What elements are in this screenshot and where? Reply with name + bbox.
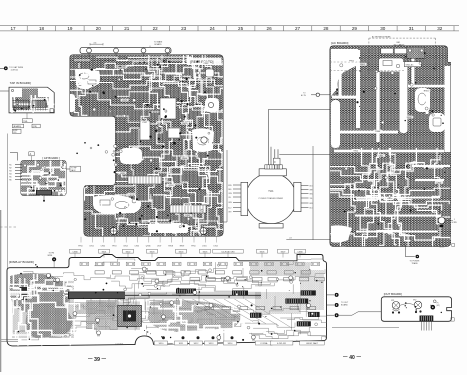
AC clear pocket left-mid <box>331 100 340 148</box>
edge connector comb ticked part <box>125 294 261 296</box>
comb connector on out board <box>420 316 434 322</box>
svg-text:TRANS: TRANS <box>412 262 419 265</box>
T901 right tab <box>294 182 301 211</box>
connector ladder <box>250 313 261 318</box>
svg-text:-551: -551 <box>13 132 16 134</box>
label box left <box>12 124 23 128</box>
connector ladder <box>176 289 196 294</box>
part label IC90 <box>142 220 150 223</box>
switch box <box>404 62 421 67</box>
wire W2 to AC board <box>269 108 341 110</box>
part label Q955 <box>118 172 126 175</box>
svg-text:R958: R958 <box>168 246 173 248</box>
strip dimension label <box>90 43 103 45</box>
hole in pocket 3 <box>201 137 207 143</box>
bottom label S314 <box>223 341 236 345</box>
svg-text:[OUT BOARD]: [OUT BOARD] <box>384 292 402 296</box>
wires below out board <box>422 321 432 330</box>
part label D951 <box>184 214 192 217</box>
screw hole with cross <box>200 228 207 235</box>
small pads out board <box>416 309 417 310</box>
clear pocket 4 <box>93 195 141 214</box>
label box above hp board <box>29 152 34 156</box>
top label S303 <box>147 249 158 253</box>
board outline: tape-in board <box>9 87 54 113</box>
bottom label S310 <box>154 341 167 345</box>
wire from rear board right edge down <box>224 150 228 222</box>
hole <box>11 89 13 91</box>
bottom label S311 <box>174 341 187 345</box>
svg-text:17: 17 <box>10 26 16 31</box>
IC951 outline <box>160 98 176 119</box>
VR952 middle <box>414 301 422 309</box>
wires exiting display board left <box>0 340 18 342</box>
svg-text:39: 39 <box>94 357 100 363</box>
wire below AC board to symbol <box>405 246 415 256</box>
IC201 block <box>118 305 142 326</box>
svg-text:[ AP BOARD ]: [ AP BOARD ] <box>43 156 61 160</box>
clear pocket 7 <box>120 148 142 164</box>
connector ladder <box>232 291 248 296</box>
AC white separator rows <box>355 198 441 232</box>
scan edge artifact left <box>0 210 1 372</box>
connector row 2 outline <box>170 205 206 213</box>
copper texture hp board <box>20 159 81 206</box>
svg-text:24: 24 <box>210 26 216 31</box>
clear pocket 6 <box>148 224 188 233</box>
svg-text:C954: C954 <box>123 246 128 248</box>
label box CN903 <box>22 119 32 123</box>
svg-text:C955: C955 <box>135 246 140 248</box>
board outline: out board <box>381 297 451 322</box>
dark pad cluster bottom <box>169 220 171 222</box>
display board thin traces <box>8 259 338 351</box>
AC board hole <box>438 217 445 224</box>
wire hp board right <box>66 168 70 170</box>
IC952 outline <box>140 121 150 140</box>
svg-text:TP50: TP50 <box>78 246 83 248</box>
svg-text:(AC CABLE): (AC CABLE) <box>394 43 405 46</box>
corner mark out board <box>451 318 454 321</box>
svg-text:LT420A: LT420A <box>260 342 268 345</box>
AC clear pocket mid-right2 <box>429 113 445 132</box>
wire below hp board <box>43 196 45 201</box>
part label C957 <box>141 121 149 124</box>
strip hole <box>165 48 170 53</box>
AC part labels <box>377 154 385 157</box>
AC white band separations horizontal <box>332 96 357 99</box>
fuse box F901 above transformer <box>273 158 280 165</box>
second component row <box>95 271 311 274</box>
C960 outline <box>168 128 180 138</box>
svg-text:LED02 DA07: LED02 DA07 <box>306 342 319 345</box>
node: to flat wire arrow <box>0 67 4 69</box>
wire between VRs <box>400 304 414 306</box>
svg-text:25: 25 <box>238 26 244 31</box>
svg-text:[DISPLAY BOARD]: [DISPLAY BOARD] <box>9 260 34 264</box>
T901 top tab <box>259 169 286 176</box>
dark connector hp board bottom <box>36 190 52 195</box>
svg-text:27: 27 <box>295 26 301 31</box>
svg-text:L907: L907 <box>157 246 161 248</box>
screw hole with cross <box>110 228 117 235</box>
copper texture rear board <box>61 55 241 249</box>
svg-text:POWER TRANSFORMER: POWER TRANSFORMER <box>259 197 284 200</box>
wire into tape-in board <box>0 90 9 92</box>
AC clear pocket top-left <box>331 49 360 96</box>
corner mark <box>452 244 455 247</box>
small outline rows right half <box>190 278 324 310</box>
svg-text:BOARD: BOARD <box>154 43 162 46</box>
wire from dot3 to out board <box>339 312 381 315</box>
svg-text:L901: L901 <box>202 246 206 248</box>
svg-text:(SP): (SP) <box>437 305 441 307</box>
svg-text:23: 23 <box>181 26 187 31</box>
T901 left pins <box>233 185 241 212</box>
part label Q952 <box>167 184 175 187</box>
connector ladder <box>301 290 316 295</box>
svg-text:[REAR BOARD]: [REAR BOARD] <box>191 60 214 64</box>
svg-text:SCRW: SCRW <box>452 222 458 224</box>
dark pad cluster top <box>139 62 140 63</box>
copper texture tape-in board <box>10 89 66 117</box>
patch between comb and IC <box>86 300 118 330</box>
fold mark dashes <box>0 226 16 228</box>
part label R953 <box>183 203 191 206</box>
svg-text:21: 21 <box>124 26 130 31</box>
dashed leaders into AC board <box>330 62 404 71</box>
top label S307 <box>278 249 289 253</box>
T901 right pins <box>301 186 309 208</box>
board label: REAR BOARD <box>188 58 222 66</box>
long vertical wire to display board <box>286 146 330 240</box>
svg-text:(CN902): (CN902) <box>11 70 19 72</box>
svg-text:R4: R4 <box>9 173 11 175</box>
white rounded square mark <box>206 69 215 77</box>
bottom label S313 <box>204 341 217 345</box>
connector ladder <box>297 321 311 326</box>
svg-text:20: 20 <box>96 26 102 31</box>
part label L951 <box>184 120 192 123</box>
svg-text:R959: R959 <box>180 246 185 248</box>
top label CN30 <box>295 249 306 253</box>
svg-text:4-202-551: 4-202-551 <box>277 343 287 345</box>
part label C962 <box>202 62 210 65</box>
board outline: rear board <box>70 55 223 236</box>
bottom label S312 <box>189 341 202 345</box>
connector row outline <box>128 176 162 184</box>
svg-text:CN30: CN30 <box>72 251 78 253</box>
svg-text:31: 31 <box>409 26 415 31</box>
part label C971 <box>121 99 129 102</box>
AC clear channel center <box>400 62 408 133</box>
svg-text:(CN): (CN) <box>33 126 37 128</box>
strip hole <box>114 48 119 53</box>
hole pads rear board <box>156 168 158 170</box>
svg-text:WIRE: WIRE <box>48 255 53 257</box>
svg-text:JACK: JACK <box>71 169 76 172</box>
long leader line under out board <box>332 327 399 329</box>
bottom label LT420A <box>255 341 272 345</box>
svg-text:22: 22 <box>153 26 159 31</box>
top label S302 <box>123 249 134 253</box>
connector ladder <box>308 312 319 317</box>
svg-text:TAP IN BOARD]: TAP IN BOARD] <box>10 81 31 85</box>
board outline: headphone board <box>21 161 66 196</box>
svg-text:BOARD: BOARD <box>341 304 348 307</box>
svg-text:32: 32 <box>437 26 443 31</box>
svg-text:CN30: CN30 <box>297 251 303 253</box>
svg-text:R1: R1 <box>9 164 11 166</box>
AC white band separations vertical <box>339 52 342 96</box>
svg-text:T901: T901 <box>268 191 274 193</box>
svg-text:AC IN: AC IN <box>301 94 306 97</box>
component row along top edge <box>80 262 320 265</box>
connector dot right <box>327 304 335 306</box>
bottom label 4-202-551 <box>270 341 293 345</box>
edge connector comb dark part <box>68 292 125 300</box>
svg-text:28: 28 <box>323 26 329 31</box>
svg-text:R3: R3 <box>9 170 11 172</box>
part label R960 <box>181 157 189 160</box>
top label S301 <box>99 249 110 253</box>
AC clear pocket top-mid <box>379 59 403 72</box>
label box right <box>32 124 40 128</box>
svg-text:19: 19 <box>67 26 73 31</box>
top label CN30 <box>70 249 81 253</box>
svg-text:30: 30 <box>380 26 386 31</box>
svg-text:R5: R5 <box>9 176 11 178</box>
top label S305 <box>200 249 211 253</box>
top label IL2-RLA0 CRD <box>213 249 243 253</box>
connector symbol to AC <box>311 94 316 96</box>
svg-text:IL2-RLA0 CRD: IL2-RLA0 CRD <box>221 250 235 253</box>
T901 top pin block <box>265 165 283 169</box>
connector CN951 pins <box>13 100 47 111</box>
svg-text:R6: R6 <box>9 179 11 181</box>
svg-text:S901 AC: S901 AC <box>406 63 414 66</box>
svg-text:P5: P5 <box>437 302 439 304</box>
clear pocket 2 <box>61 94 75 112</box>
AC clear pocket bottom-left <box>331 225 352 242</box>
part label C951 <box>165 184 173 187</box>
svg-text:18: 18 <box>39 26 45 31</box>
strip hole <box>141 48 146 53</box>
AC clear pocket mid-right1 <box>415 88 430 112</box>
svg-text:26: 26 <box>267 26 273 31</box>
AC clear right margin <box>445 66 451 152</box>
ruler scale strip <box>0 26 459 31</box>
svg-text:VR1: VR1 <box>391 300 394 302</box>
T901 left tab <box>241 182 248 215</box>
extra gray patches right half <box>250 262 324 314</box>
copper patch left <box>10 273 73 313</box>
svg-text:WHT: WHT <box>310 189 314 191</box>
svg-text:1: 1 <box>454 219 455 221</box>
clear pocket 3 <box>192 128 214 152</box>
svg-text:C951: C951 <box>89 246 94 248</box>
dark pad cluster center <box>186 103 188 105</box>
svg-text:C952: C952 <box>101 246 106 248</box>
wire into headphone board <box>10 153 18 161</box>
fan traces right of comb <box>100 299 292 328</box>
clear pocket 5 <box>205 98 219 112</box>
connector pins hp board left <box>15 165 22 180</box>
wire W3 to AC board <box>279 153 330 155</box>
svg-text:R2: R2 <box>9 167 11 169</box>
AC components row <box>381 48 393 54</box>
top label S306 <box>257 249 268 253</box>
board outline: display board <box>7 255 327 346</box>
svg-text:TP53: TP53 <box>112 246 117 248</box>
AC board pads <box>405 56 406 57</box>
wires above transformer <box>269 109 279 169</box>
svg-text:AL SHOWN AT REAR: AL SHOWN AT REAR <box>372 35 391 38</box>
connector dot right <box>327 294 335 296</box>
svg-text:4B-08: 4B-08 <box>440 247 445 249</box>
top label S304 <box>176 249 187 253</box>
svg-text:29: 29 <box>352 26 358 31</box>
right pad cluster <box>431 305 436 310</box>
mounting mark <box>50 109 54 113</box>
bottom label LED02 DA07 <box>300 341 325 345</box>
VR951 left <box>392 302 400 310</box>
dashed callout frame above AC board <box>369 38 436 75</box>
T901 bottom tab <box>259 224 283 229</box>
part label RV95 <box>181 122 189 125</box>
svg-text:Q955: Q955 <box>120 173 126 175</box>
connector strip CN901 <box>80 47 171 53</box>
svg-text:Q906: Q906 <box>146 246 151 248</box>
svg-text:(BOARD): (BOARD) <box>13 125 21 128</box>
svg-text:40: 40 <box>349 355 355 361</box>
svg-text:L:OT BOX: L:OT BOX <box>115 344 124 346</box>
svg-text:[AC BOARD]: [AC BOARD] <box>331 41 349 45</box>
wire: left margin vertical <box>7 134 9 269</box>
svg-text:YEL: YEL <box>310 198 313 200</box>
board outline: AC board <box>330 46 451 246</box>
transformer T901 body <box>246 173 297 224</box>
connector dot right <box>327 314 335 316</box>
strip hole <box>87 48 92 53</box>
svg-text:VR2: VR2 <box>413 300 416 302</box>
svg-text:YEL: YEL <box>228 197 231 199</box>
black via dot with label <box>52 257 56 261</box>
svg-text:TP50: TP50 <box>191 246 196 248</box>
svg-text:TML: TML <box>23 121 28 123</box>
solder-side clear pocket 1 <box>75 69 100 90</box>
small parts above bottom labels <box>162 336 165 339</box>
connector ladder <box>285 299 308 304</box>
svg-text:L902: L902 <box>214 246 218 248</box>
svg-text:(X): (X) <box>94 42 97 44</box>
label box lower <box>12 129 21 133</box>
copper texture AC board <box>330 46 455 251</box>
